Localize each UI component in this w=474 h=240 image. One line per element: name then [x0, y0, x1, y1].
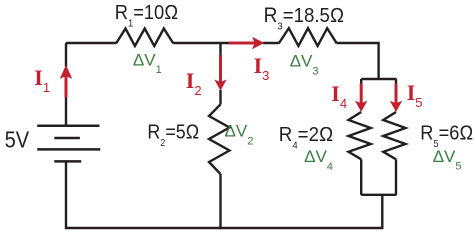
- svg-text:ΔV5: ΔV5: [433, 147, 462, 173]
- svg-text:I1: I1: [34, 65, 50, 95]
- battery 5V: [37, 126, 100, 162]
- svg-text:ΔV3: ΔV3: [290, 52, 319, 78]
- current arrow I2: [214, 55, 226, 90]
- svg-text:5V: 5V: [5, 126, 30, 152]
- wire left vertical lower part: [65, 97, 67, 126]
- wire bottom bar of parallel branch: [361, 194, 396, 196]
- svg-text:R1=10Ω: R1=10Ω: [115, 2, 179, 30]
- wire node A to R3: [263, 42, 279, 44]
- wire R4 bottom stub: [360, 159, 362, 195]
- resistor R4: [349, 112, 371, 159]
- svg-text:I3: I3: [254, 53, 270, 83]
- wire middle branch above R2: [219, 90, 221, 105]
- svg-text:ΔV1: ΔV1: [133, 50, 162, 76]
- resistor R1: [116, 29, 173, 47]
- wire R3 to right branch top: [337, 43, 379, 79]
- wire battery to bottom rail and right riser: [66, 161, 382, 228]
- current arrow I4: [355, 84, 367, 113]
- wire R5 top stub: [395, 79, 397, 87]
- resistor R2: [209, 104, 230, 174]
- wire R1 to node A: [173, 42, 230, 44]
- wire R4 top stub: [360, 79, 362, 87]
- current arrow I1: [60, 65, 72, 98]
- svg-text:ΔV2: ΔV2: [225, 122, 254, 148]
- current arrow I3: [229, 37, 265, 49]
- resistor R5: [383, 112, 405, 159]
- wire middle branch top: [219, 43, 221, 57]
- svg-text:ΔV4: ΔV4: [304, 147, 333, 173]
- svg-text:R3=18.5Ω: R3=18.5Ω: [264, 4, 345, 33]
- wire middle branch bottom: [219, 174, 221, 229]
- svg-text:I4: I4: [331, 81, 347, 111]
- resistor R3: [279, 28, 337, 46]
- svg-text:R2=5Ω: R2=5Ω: [147, 121, 199, 149]
- wire top bar of parallel branch: [361, 78, 396, 80]
- current arrow I5: [390, 84, 402, 113]
- wire left vertical to battery: [65, 43, 67, 67]
- svg-text:I2: I2: [186, 68, 202, 98]
- wire top-left segment: [66, 42, 116, 44]
- svg-text:I5: I5: [407, 80, 423, 110]
- wire R5 bottom stub: [395, 159, 397, 195]
